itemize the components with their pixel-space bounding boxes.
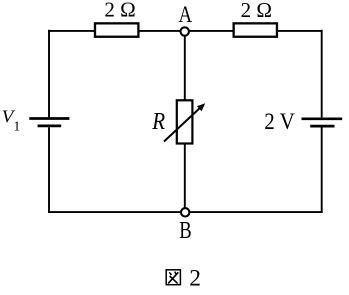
battery 2V long plate [302, 117, 343, 120]
svg-text:2 Ω: 2 Ω [241, 0, 272, 22]
svg-text:2: 2 [189, 265, 201, 291]
variable resistor arrowhead [197, 103, 205, 111]
battery V1 short plate [38, 125, 62, 128]
wire top segment between node A and right resistor [188, 30, 236, 32]
svg-text:A: A [179, 2, 193, 28]
wire top segment between left resistor and node A [137, 30, 182, 32]
wire bottom segment left [48, 211, 181, 213]
resistor 2-ohm right box [234, 23, 277, 36]
battery V1 long plate [29, 117, 69, 120]
svg-text:2 V: 2 V [264, 109, 295, 135]
svg-text:B: B [179, 218, 191, 244]
wire top-right segment [276, 30, 323, 32]
wire middle branch lower [184, 144, 186, 209]
variable resistor arrow shaft [164, 108, 200, 142]
wire left branch upper [48, 30, 50, 118]
node A circle [181, 27, 189, 35]
wire right branch lower [321, 127, 323, 213]
node B circle [181, 208, 189, 216]
wire bottom segment right [189, 211, 323, 213]
caption kanji ZU (figure) drawn glyph [166, 270, 180, 285]
variable resistor R box [177, 100, 193, 143]
resistor 2-ohm left box [95, 23, 138, 36]
svg-text:R: R [151, 108, 165, 135]
wire middle branch upper [184, 35, 186, 101]
wire right branch upper [321, 30, 323, 118]
battery 2V short plate [310, 125, 334, 128]
wire left branch lower [48, 127, 50, 213]
wire top-left segment [48, 30, 96, 32]
svg-text:2 Ω: 2 Ω [104, 0, 135, 22]
svg-text:1: 1 [14, 118, 21, 133]
